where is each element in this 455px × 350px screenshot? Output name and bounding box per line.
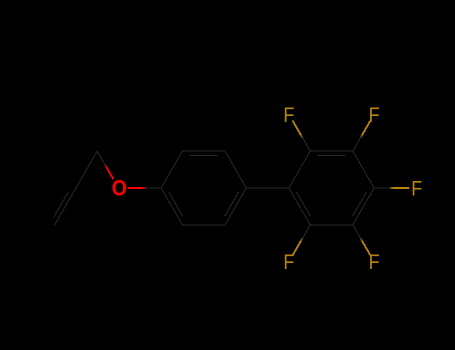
left ring edge TL-TR (182, 150, 225, 152)
right ring edge R-BR (353, 188, 374, 225)
wire allyl C2=C3 double bond main line (55, 188, 76, 225)
wire biphenyl bond (246, 187, 289, 189)
left ring edge BR-BL (182, 224, 225, 226)
svg-text:F: F (283, 103, 294, 127)
right ring edge TL-TR (310, 150, 353, 152)
wire C-F bond right, olive half (390, 187, 408, 189)
left ring inner double line lower-right (225, 192, 239, 216)
wire O-ring bond red half (near O) (128, 187, 145, 189)
left ring edge TR-R (225, 151, 246, 188)
wire C-F bond top-right, olive half (361, 121, 370, 137)
right ring edge BL-L (289, 188, 310, 225)
wire allyl C2=C3 double bond second line (54, 192, 68, 217)
svg-text:F: F (369, 250, 380, 274)
wire O-ring bond gray half (near ring) (143, 187, 161, 189)
right ring inner double line lower-left (297, 192, 311, 216)
wire O-C1 bond red half (near O) (105, 165, 113, 178)
wire C-F bond top-right, gray half (353, 136, 362, 152)
wire C-F bond bottom-left, gray half (301, 225, 310, 241)
wire C-F bond top-left, gray half (301, 136, 310, 152)
wire C-F bond bottom-right, gray half (353, 225, 362, 241)
right ring edge TR-R (353, 151, 374, 188)
left ring edge BL-L (161, 188, 182, 225)
left ring inner double line top (190, 155, 217, 157)
svg-text:F: F (283, 250, 294, 274)
right ring inner double line lower-right (353, 192, 367, 216)
wire C-F bond top-left, olive half (293, 121, 302, 137)
right ring edge L-TL (289, 151, 310, 188)
wire C-F bond bottom-left, olive half (293, 239, 302, 255)
wire O-C1 bond gray half (near C1) (97, 151, 106, 166)
right ring inner double line top (318, 155, 345, 157)
svg-text:O: O (112, 176, 127, 201)
left ring edge R-BR (225, 188, 246, 225)
wire C-F bond right, gray half (374, 187, 392, 189)
svg-text:F: F (369, 103, 380, 127)
wire C-F bond bottom-right, olive half (361, 239, 370, 255)
wire allyl C1-C2 bond (76, 151, 97, 188)
left ring edge L-TL (161, 151, 182, 188)
svg-text:F: F (411, 177, 422, 201)
right ring edge BR-BL (310, 224, 353, 226)
left ring inner double line lower-left (169, 192, 183, 216)
